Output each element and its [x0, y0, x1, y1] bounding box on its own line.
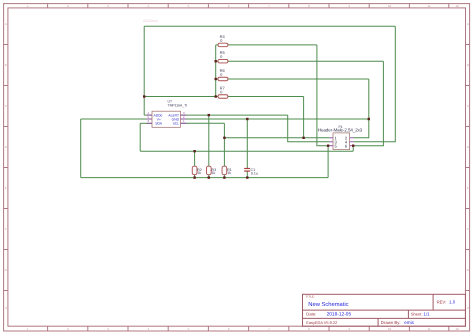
wire GND row [181, 118, 369, 120]
junction ADD0/R7-row at (144,96.5) [143, 95, 145, 97]
wire ALERT to pin3 [288, 115, 330, 142]
wire R7 row [216, 96, 304, 98]
U? pin 5 V+ stub [147, 118, 152, 120]
svg-text:1.0: 1.0 [449, 300, 456, 305]
P1 pin 5 stub [330, 145, 334, 147]
junction pin1-row/R7 [302, 137, 304, 139]
P1 pin 1 stub [330, 137, 334, 139]
junction SDA-underpass/R2 [193, 150, 195, 152]
svg-text:0.1u: 0.1u [251, 172, 258, 176]
svg-text:H: H [5, 306, 7, 310]
wire R6 to pin2 [353, 79, 368, 138]
svg-text:EasyEDA V5.9.22: EasyEDA V5.9.22 [306, 320, 337, 325]
junction GND/pin2 [368, 118, 370, 120]
wire pin6 underpass [140, 150, 353, 152]
wire pin5 riser [327, 146, 329, 178]
junction rail/R1 [223, 176, 225, 178]
svg-text:H: H [467, 306, 469, 310]
wire R4 row [216, 44, 317, 46]
svg-text:12: 12 [456, 327, 460, 331]
wire pin1 row [224, 137, 329, 139]
svg-text:A: A [5, 22, 7, 26]
svg-text:A: A [467, 22, 469, 26]
resistor R6 [218, 68, 228, 81]
U? pin 4 ADD0 stub [147, 114, 152, 116]
wire R3 vertical [208, 115, 210, 178]
wire V+ left vertical [80, 119, 82, 178]
U? pin 1 SCL stub [181, 122, 187, 124]
resistor R3 [206, 166, 216, 175]
svg-text:ADD0net: ADD0net [143, 19, 158, 23]
wire SDA vertical [139, 123, 141, 151]
svg-text:10: 10 [388, 4, 392, 8]
junction pin5/V+ [327, 145, 329, 147]
svg-text:1k: 1k [197, 171, 201, 175]
wire R6 row [216, 78, 369, 80]
svg-text:TMP116A_TI: TMP116A_TI [168, 103, 188, 107]
junction ladder/R5 [215, 60, 217, 62]
left/right zone ticks [4, 45, 9, 291]
svg-text:1/1: 1/1 [424, 311, 431, 316]
svg-text:New Schematic: New Schematic [308, 301, 348, 308]
wire left vertical ADD0 [143, 26, 145, 115]
junction GND/C1 [246, 118, 248, 120]
svg-text:SCL: SCL [173, 122, 180, 126]
junction rail/R3 [208, 176, 210, 178]
P1 pin 2 stub [350, 137, 354, 139]
wire R7 row left [144, 96, 216, 98]
wire R2 vertical [194, 151, 196, 177]
svg-text:emis: emis [404, 320, 414, 325]
svg-text:11: 11 [428, 4, 431, 8]
wire SCL row [181, 122, 225, 124]
wire V+ row [81, 118, 152, 120]
svg-text:2018-12-05: 2018-12-05 [327, 311, 352, 317]
capacitor C1 [244, 168, 258, 176]
resistor R1 [222, 166, 232, 175]
svg-text:E: E [467, 186, 469, 190]
svg-text:10: 10 [388, 327, 392, 331]
svg-text:F: F [467, 227, 469, 231]
P1 pin 3 stub [330, 141, 334, 143]
junction ALERT/R3 [208, 114, 210, 116]
svg-text:B: B [5, 63, 7, 67]
junction rail/R2 [193, 176, 195, 178]
wire SCL vertical R1 [223, 123, 225, 177]
svg-text:SDA: SDA [155, 122, 163, 126]
junction pin6 [352, 145, 354, 147]
junction pin1-row/R1 [223, 137, 225, 139]
top/bottom zone ticks [48, 4, 449, 9]
U? pin 6 SDA stub [147, 122, 152, 124]
svg-text:E: E [5, 186, 7, 190]
svg-text:TITLE:: TITLE: [306, 295, 315, 299]
P1 pin 4 stub [350, 141, 354, 143]
wire ladder vertical [215, 45, 217, 97]
U? pin 2 GND stub [181, 118, 187, 120]
wire top to pin4 [353, 26, 395, 142]
svg-text:Date:: Date: [306, 311, 316, 316]
svg-text:REV:: REV: [437, 300, 447, 305]
resistor R7 [218, 85, 228, 98]
junction ladder/R7 [215, 95, 217, 97]
wire SDA row [140, 122, 152, 124]
resistor R4 [218, 34, 228, 47]
wire ALERT row [181, 114, 288, 116]
IC U? TMP116A_TI [152, 100, 187, 128]
header P1 [318, 125, 363, 150]
svg-text:F: F [5, 227, 7, 231]
U? pin 3 ALERT stub [181, 114, 187, 116]
wire R5 to pin6 [353, 61, 383, 146]
wire R7 to pin1 row [303, 97, 305, 138]
svg-text:1k: 1k [212, 171, 216, 175]
svg-text:11: 11 [428, 327, 431, 331]
wire R4 to pin5 [317, 45, 330, 146]
wire R5 row [216, 60, 384, 62]
svg-text:B: B [467, 63, 469, 67]
svg-text:Header-Male-2.54_2x3: Header-Male-2.54_2x3 [318, 128, 363, 133]
svg-text:12: 12 [456, 4, 460, 8]
junction rail/C1 [246, 176, 248, 178]
wire top net ADD0 [144, 25, 395, 27]
junction ladder/R6 [215, 78, 217, 80]
svg-text:1k: 1k [227, 171, 231, 175]
P1 pin 6 stub [350, 145, 354, 147]
title block [303, 294, 466, 326]
resistor R5 [218, 50, 228, 63]
resistor R2 [192, 166, 202, 175]
junction dots [143, 60, 370, 179]
wire bottom rail [81, 177, 328, 179]
wire ADD0 to IC [144, 114, 152, 116]
wire C1 vertical [246, 119, 248, 178]
svg-text:Sheet:: Sheet: [411, 311, 423, 316]
svg-text:Drawn By:: Drawn By: [381, 320, 401, 325]
wire pin6 drop [352, 146, 354, 152]
